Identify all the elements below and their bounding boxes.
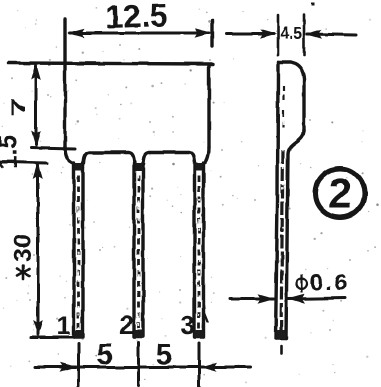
svg-text:30: 30 [9, 234, 37, 262]
svg-text:2: 2 [328, 170, 351, 217]
svg-text:4.5: 4.5 [280, 23, 302, 43]
svg-text:5: 5 [97, 339, 113, 371]
svg-text:1.5: 1.5 [0, 135, 23, 170]
svg-text:5: 5 [156, 339, 172, 371]
svg-text:2: 2 [120, 310, 134, 340]
svg-text:3: 3 [181, 310, 195, 340]
svg-text:12.5: 12.5 [105, 0, 168, 35]
svg-text:7: 7 [8, 97, 30, 117]
svg-text:0.6: 0.6 [310, 269, 349, 295]
svg-text:1: 1 [57, 310, 71, 340]
